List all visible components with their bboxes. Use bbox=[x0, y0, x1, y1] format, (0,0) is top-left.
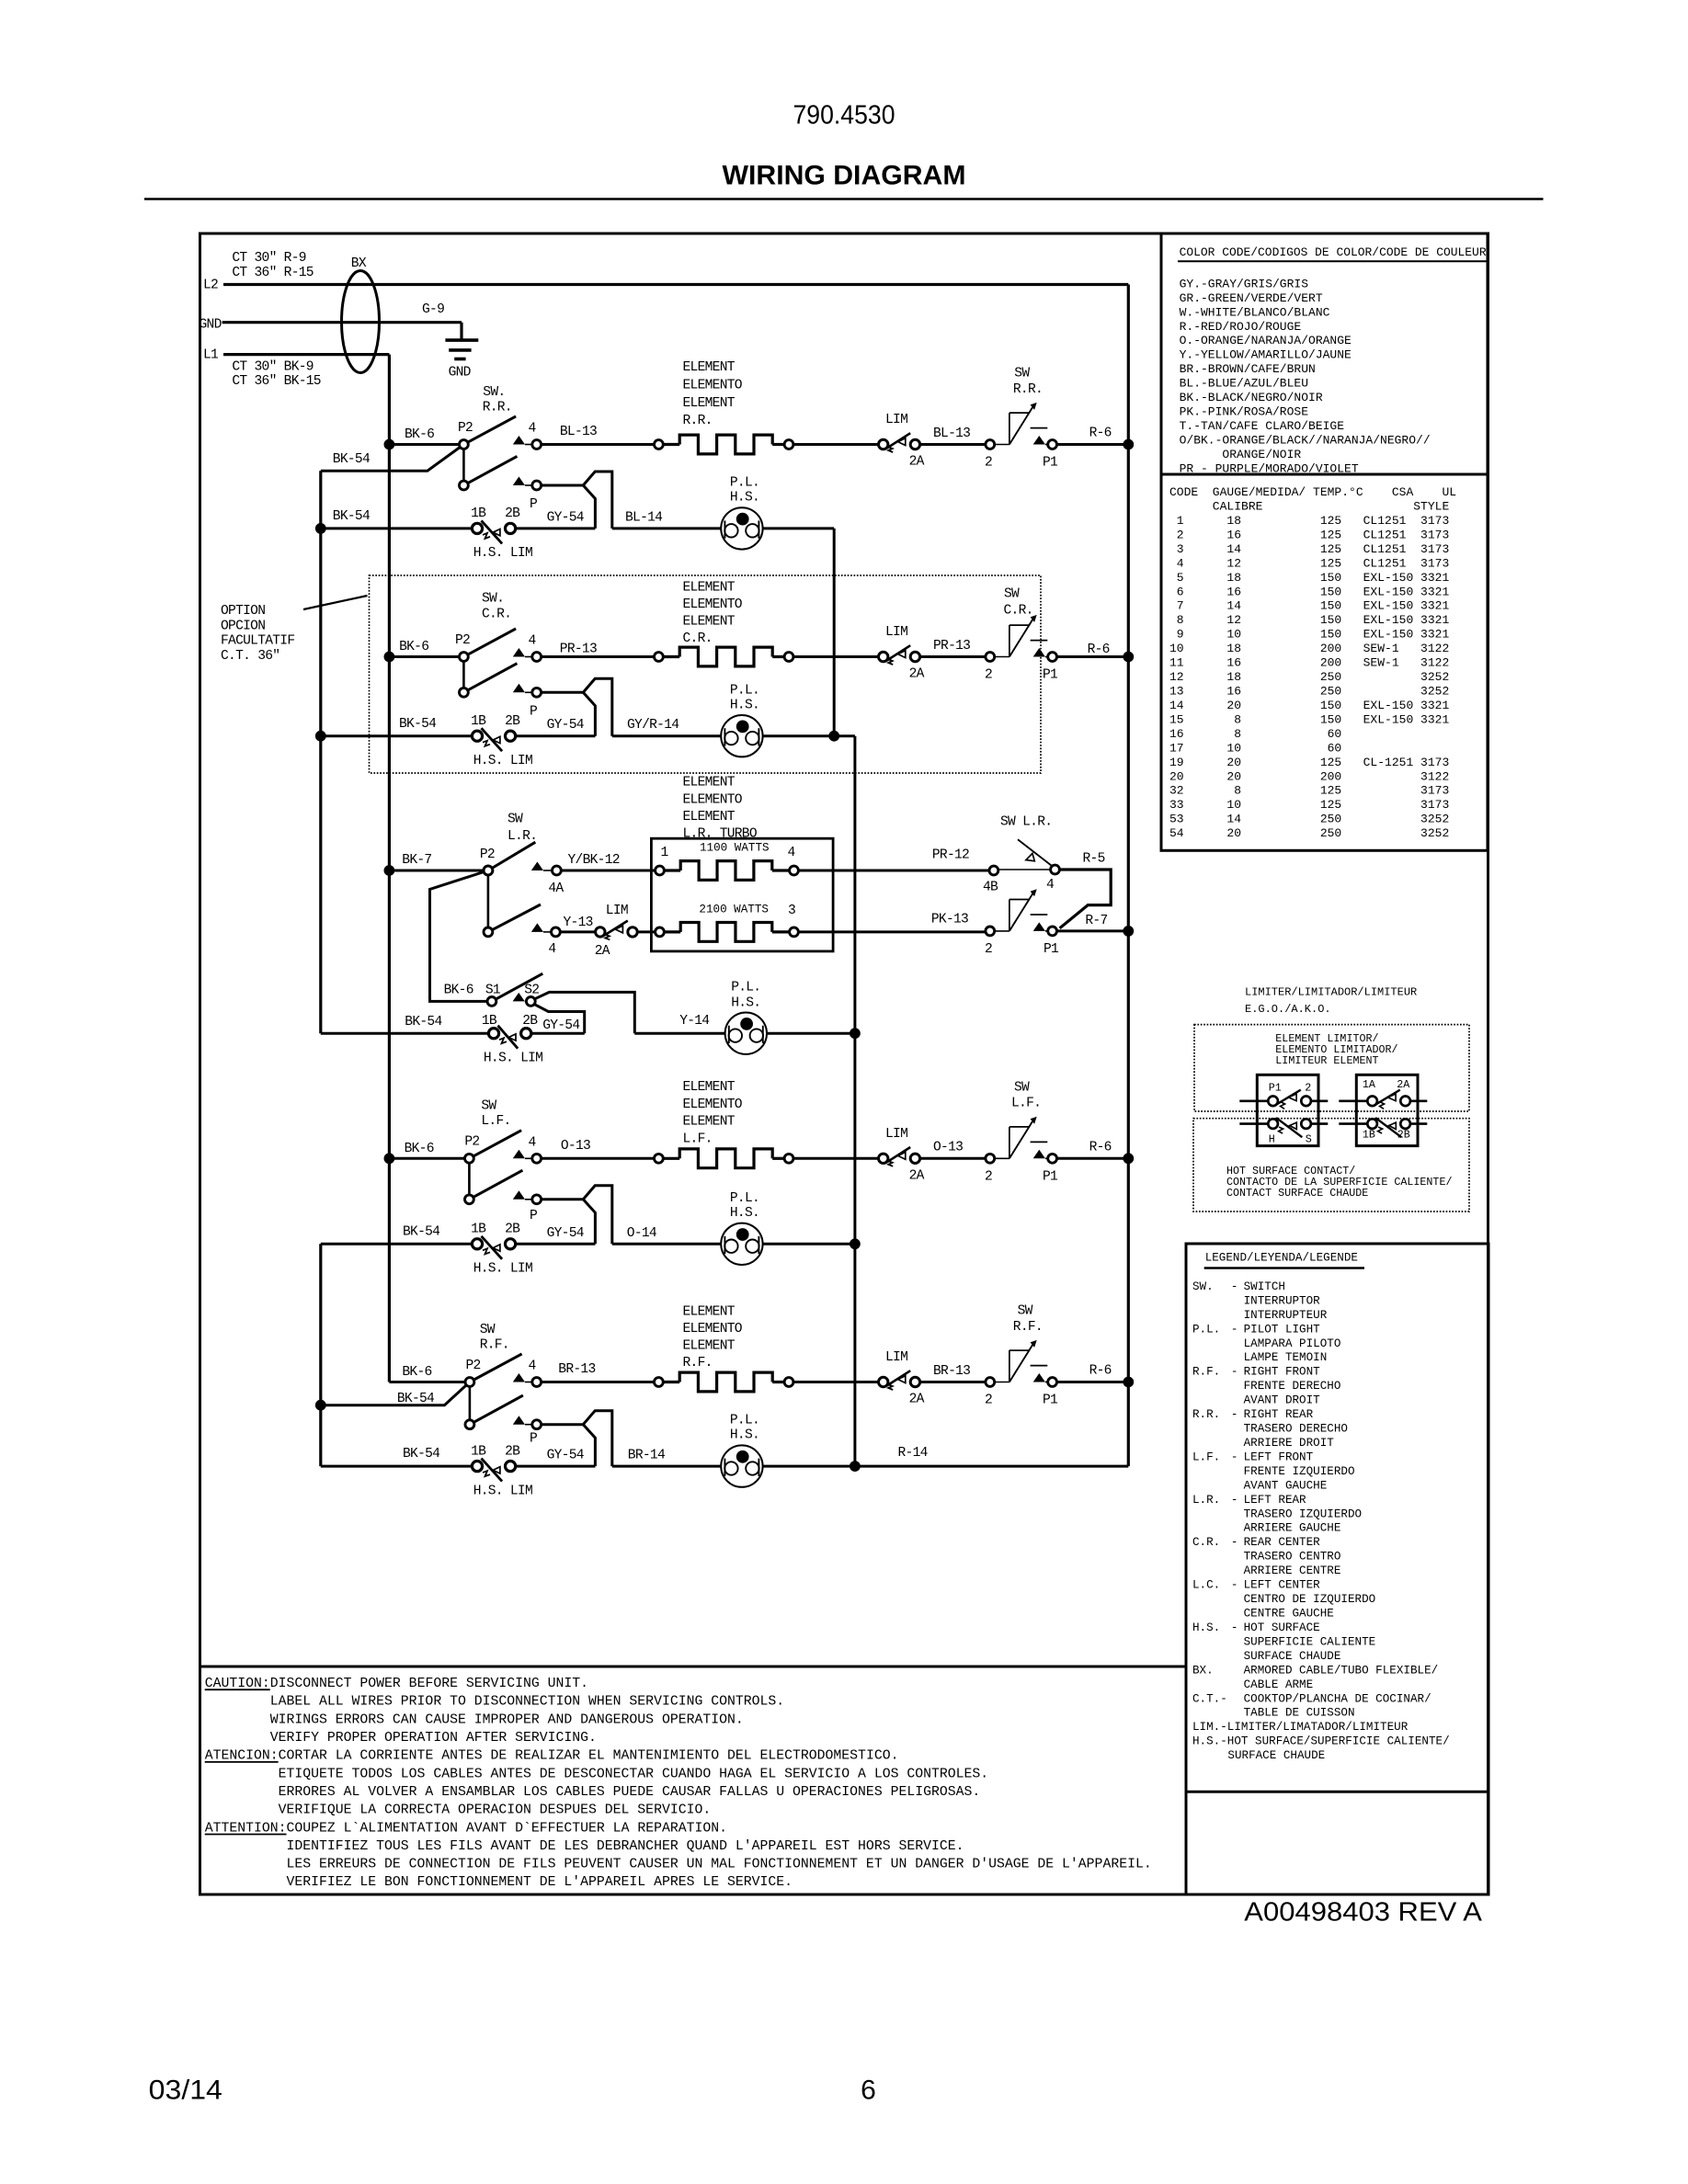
svg-text:8 12 150 EXL-: 8 12 150 EXL-150 3321 bbox=[1169, 613, 1449, 627]
svg-text:P.L.: P.L. bbox=[730, 1191, 759, 1206]
svg-text:CT 30" BK-9: CT 30" BK-9 bbox=[232, 359, 313, 374]
svg-text:CORTAR LA CORRIENTE ANTES DE R: CORTAR LA CORRIENTE ANTES DE REALIZAR EL… bbox=[279, 1749, 899, 1764]
svg-text:PR-13: PR-13 bbox=[560, 642, 597, 656]
svg-text:TRASERO IZQUIERDO: TRASERO IZQUIERDO bbox=[1244, 1507, 1362, 1520]
svg-text:INTERRUPTEUR: INTERRUPTEUR bbox=[1244, 1309, 1328, 1322]
svg-text:BX: BX bbox=[351, 256, 367, 271]
svg-text:H.S.: H.S. bbox=[1192, 1621, 1220, 1634]
svg-text:L.R. TURBO: L.R. TURBO bbox=[683, 827, 758, 842]
svg-text:11 16 200 SEW: 11 16 200 SEW-1 3122 bbox=[1169, 656, 1449, 670]
wire BK-54 (L.R.) bbox=[321, 1032, 489, 1035]
svg-text:SW.: SW. bbox=[483, 385, 505, 400]
wire BR-13 b (R.F.) bbox=[920, 1381, 986, 1383]
wire pilot out (R.R.) bbox=[763, 527, 835, 529]
legend divider bbox=[1186, 1791, 1488, 1793]
svg-text:3 14 125 CL12: 3 14 125 CL1251 3173 bbox=[1169, 542, 1449, 556]
svg-text:P2: P2 bbox=[480, 847, 495, 862]
svg-text:H.S.: H.S. bbox=[730, 698, 759, 712]
element L.F. bbox=[655, 1154, 664, 1163]
svg-text:P1: P1 bbox=[1043, 456, 1058, 471]
svg-text:4: 4 bbox=[529, 1359, 537, 1374]
svg-text:ETIQUETE TODOS LOS CABLES ANTE: ETIQUETE TODOS LOS CABLES ANTES DE DESCO… bbox=[205, 1767, 988, 1781]
svg-text:4B: 4B bbox=[983, 881, 998, 895]
terminal P (R.F.) bbox=[513, 1416, 525, 1425]
outer border box bbox=[200, 233, 1488, 1894]
svg-text:PR-12: PR-12 bbox=[932, 848, 969, 863]
switch SW L.R. relay bbox=[998, 869, 1052, 870]
pilot light P.L. H.S. (R.R.) bbox=[721, 507, 762, 549]
element R.R. bbox=[655, 440, 664, 449]
svg-text:FACULTATIF: FACULTATIF bbox=[221, 634, 294, 649]
wire BL-13 (R.R.) bbox=[542, 443, 659, 446]
svg-text:PK-13: PK-13 bbox=[931, 913, 968, 927]
svg-text:790.4530: 790.4530 bbox=[793, 100, 895, 130]
wire GY riser (R.R.) bbox=[583, 485, 595, 529]
svg-text:GY.-GRAY/GRIS/GRIS: GY.-GRAY/GRIS/GRIS bbox=[1180, 277, 1309, 290]
svg-text:ARRIERE DROIT: ARRIERE DROIT bbox=[1244, 1437, 1335, 1450]
wire element to LIM (R.F.) bbox=[793, 1381, 879, 1383]
svg-text:1B: 1B bbox=[1363, 1129, 1375, 1142]
svg-text:BR.-BROWN/CAFE/BRUN: BR.-BROWN/CAFE/BRUN bbox=[1180, 362, 1316, 376]
svg-text:R.F.: R.F. bbox=[683, 1356, 713, 1371]
pilot light P.L. H.S. (L.F.) bbox=[721, 1223, 762, 1265]
svg-text:LEFT CENTER: LEFT CENTER bbox=[1244, 1579, 1321, 1592]
svg-text:SW.: SW. bbox=[1192, 1280, 1214, 1293]
wire S2 to GY-54 (L.R.) bbox=[534, 1004, 585, 1033]
svg-text:P1: P1 bbox=[1043, 1169, 1058, 1184]
svg-text:P.L.: P.L. bbox=[730, 476, 759, 491]
svg-text:COOKTOP/PLANCHA DE COCINAR/: COOKTOP/PLANCHA DE COCINAR/ bbox=[1244, 1692, 1431, 1705]
svg-text:TABLE DE CUISSON: TABLE DE CUISSON bbox=[1244, 1707, 1355, 1720]
svg-text:L1: L1 bbox=[203, 348, 219, 363]
wire O-14 (L.F.) bbox=[612, 1243, 722, 1246]
svg-text:PILOT LIGHT: PILOT LIGHT bbox=[1244, 1323, 1321, 1336]
junction pilot bus (L.R.) bbox=[850, 1028, 861, 1039]
svg-text:-: - bbox=[1231, 1621, 1238, 1634]
svg-text:S2: S2 bbox=[524, 984, 539, 998]
color code box bbox=[1161, 233, 1488, 474]
svg-text:O/BK.-ORANGE/BLACK//NARANJA/NE: O/BK.-ORANGE/BLACK//NARANJA/NEGRO// bbox=[1180, 433, 1431, 447]
svg-text:R.R.: R.R. bbox=[483, 400, 512, 415]
bus right R vertical bbox=[1127, 285, 1130, 1467]
svg-text:2B: 2B bbox=[1397, 1129, 1410, 1142]
svg-text:R.F.: R.F. bbox=[480, 1337, 509, 1352]
wire PR-13 (C.R.) bbox=[542, 655, 659, 658]
svg-text:REAR CENTER: REAR CENTER bbox=[1244, 1536, 1321, 1549]
option dashed box C.T. 36 bbox=[370, 575, 1042, 773]
svg-text:R.-RED/ROJO/ROUGE: R.-RED/ROJO/ROUGE bbox=[1180, 320, 1302, 334]
junction R-7 L.R. bbox=[1123, 926, 1134, 937]
wire BK-54 (C.R.) bbox=[321, 734, 473, 737]
cable BX bbox=[342, 271, 380, 373]
svg-text:HOT SURFACE: HOT SURFACE bbox=[1244, 1621, 1320, 1634]
svg-text:LEFT FRONT: LEFT FRONT bbox=[1244, 1450, 1314, 1463]
svg-text:LEGEND/LEYENDA/LEGENDE: LEGEND/LEYENDA/LEGENDE bbox=[1205, 1251, 1358, 1264]
pilot light P.L. H.S. (R.F.) bbox=[721, 1445, 762, 1486]
svg-text:-: - bbox=[1231, 1280, 1238, 1293]
svg-text:SW: SW bbox=[481, 1099, 496, 1114]
wire pilot out (R.F.) bbox=[763, 1465, 855, 1468]
svg-text:BK-54: BK-54 bbox=[333, 452, 371, 467]
svg-text:BR-13: BR-13 bbox=[933, 1364, 970, 1379]
svg-text:R-5: R-5 bbox=[1083, 852, 1105, 867]
svg-text:L.R.: L.R. bbox=[1192, 1494, 1220, 1507]
svg-text:BK-6: BK-6 bbox=[405, 1142, 434, 1156]
svg-text:L.R.: L.R. bbox=[508, 829, 537, 844]
svg-text:H.S. LIM: H.S. LIM bbox=[473, 546, 532, 561]
junction BK-6 L.F. bbox=[384, 1153, 395, 1164]
switch SW R.R. pole 1 bbox=[463, 416, 516, 445]
svg-text:7 14 150 EXL-: 7 14 150 EXL-150 3321 bbox=[1169, 599, 1449, 613]
wire GY riser (L.F.) bbox=[583, 1200, 595, 1245]
H.S. limiter 1B 2B (R.R.) bbox=[472, 523, 482, 533]
svg-text:A00498403 REV A: A00498403 REV A bbox=[1244, 1897, 1482, 1927]
svg-text:-: - bbox=[1231, 1366, 1238, 1379]
svg-text:P2: P2 bbox=[455, 633, 470, 648]
wire Y-13 (L.R.) bbox=[560, 930, 595, 933]
switch SW R.F. pole 1 bbox=[470, 1354, 522, 1382]
svg-text:RIGHT FRONT: RIGHT FRONT bbox=[1244, 1366, 1321, 1379]
terminal 4 (C.R.) bbox=[513, 648, 525, 657]
svg-text:COUPEZ L`ALIMENTATION AVANT D`: COUPEZ L`ALIMENTATION AVANT D`EFFECTUER … bbox=[287, 1821, 728, 1836]
svg-text:SW L.R.: SW L.R. bbox=[1000, 814, 1052, 829]
H.S. limiter 1B 2B (C.R.) bbox=[472, 731, 482, 741]
svg-text:ELEMENT: ELEMENT bbox=[683, 810, 736, 825]
svg-text:R.R.: R.R. bbox=[683, 414, 713, 428]
svg-text:2A: 2A bbox=[909, 1393, 925, 1407]
svg-text:H.S. LIM: H.S. LIM bbox=[484, 1052, 542, 1066]
svg-text:19 20 125 CL-: 19 20 125 CL-1251 3173 bbox=[1169, 756, 1449, 769]
svg-text:BK-6: BK-6 bbox=[399, 640, 428, 654]
svg-text:ERRORES AL VOLVER A ENSAMBLAR: ERRORES AL VOLVER A ENSAMBLAR LOS CABLES… bbox=[205, 1785, 981, 1800]
svg-text:33 10 125: 33 10 125 3173 bbox=[1169, 798, 1449, 812]
H.S. limiter 1B 2B (L.F.) bbox=[472, 1239, 482, 1249]
svg-text:-: - bbox=[1231, 1450, 1238, 1463]
svg-text:CABLE ARME: CABLE ARME bbox=[1244, 1678, 1314, 1691]
svg-text:H.S. LIM: H.S. LIM bbox=[473, 1484, 532, 1498]
svg-text:3: 3 bbox=[788, 904, 795, 918]
terminal 2 (R.F.) bbox=[986, 1378, 995, 1387]
svg-text:LAMPE TEMOIN: LAMPE TEMOIN bbox=[1244, 1351, 1328, 1364]
switch SW L.R. pole 1 bbox=[488, 842, 535, 870]
bus L1 vertical bbox=[388, 355, 391, 1382]
svg-text:32 8 125: 32 8 125 3173 bbox=[1169, 784, 1449, 798]
svg-text:CODE GAUGE/MEDIDA/ TEMP.°C: CODE GAUGE/MEDIDA/ TEMP.°C CSA UL bbox=[1169, 485, 1456, 499]
svg-text:1B: 1B bbox=[482, 1014, 497, 1029]
svg-text:P2: P2 bbox=[464, 1135, 479, 1150]
svg-text:W.-WHITE/BLANCO/BLANC: W.-WHITE/BLANCO/BLANC bbox=[1180, 305, 1330, 319]
svg-text:R.F.: R.F. bbox=[1013, 1320, 1043, 1335]
terminal P1 (L.R.) bbox=[1033, 922, 1045, 931]
svg-text:ELEMENTO: ELEMENTO bbox=[683, 1322, 743, 1337]
wire pilot out (L.F.) bbox=[763, 1243, 855, 1246]
svg-text:CT 36" BK-15: CT 36" BK-15 bbox=[232, 374, 320, 389]
svg-text:Y/BK-12: Y/BK-12 bbox=[568, 853, 620, 868]
svg-text:LIMITEUR ELEMENT: LIMITEUR ELEMENT bbox=[1275, 1054, 1378, 1067]
svg-text:CALIBRE ST: CALIBRE STYLE bbox=[1169, 500, 1449, 514]
leader line option bbox=[303, 596, 368, 609]
svg-text:BL.-BLUE/AZUL/BLEU: BL.-BLUE/AZUL/BLEU bbox=[1180, 377, 1308, 391]
wire BK-6 (R.F.) bbox=[389, 1381, 470, 1383]
hot surface contact dotted box bbox=[1193, 1119, 1469, 1211]
svg-text:ELEMENT: ELEMENT bbox=[683, 1080, 736, 1095]
svg-text:T.-TAN/CAFE CLARO/BEIGE: T.-TAN/CAFE CLARO/BEIGE bbox=[1180, 419, 1345, 433]
junction BK-7 L.R. bbox=[384, 865, 395, 876]
svg-text:WIRING DIAGRAM: WIRING DIAGRAM bbox=[723, 160, 966, 190]
wire BL-14 (R.R.) bbox=[612, 527, 722, 529]
svg-text:2100 WATTS: 2100 WATTS bbox=[699, 904, 769, 916]
svg-text:O-13: O-13 bbox=[561, 1139, 590, 1154]
svg-text:GY/R-14: GY/R-14 bbox=[627, 718, 679, 733]
terminal 2 (L.F.) bbox=[986, 1154, 995, 1163]
svg-text:P.L.: P.L. bbox=[731, 980, 760, 995]
thermostat SW (L.R.) bbox=[995, 930, 1009, 932]
wire element to LIM (C.R.) bbox=[793, 655, 879, 658]
wire Y/BK-12 (L.R.) bbox=[561, 870, 655, 872]
svg-text:H.S.: H.S. bbox=[730, 1206, 759, 1221]
svg-text:12 18 250: 12 18 250 3252 bbox=[1169, 670, 1449, 684]
wire L2 bbox=[223, 283, 1128, 286]
wire L1 bbox=[223, 353, 389, 356]
svg-text:LIM: LIM bbox=[885, 413, 907, 427]
svg-text:4: 4 bbox=[529, 1135, 537, 1150]
caution divider line bbox=[200, 1666, 1187, 1668]
svg-text:INTERRUPTOR: INTERRUPTOR bbox=[1244, 1294, 1321, 1307]
svg-text:L.C.: L.C. bbox=[1192, 1579, 1220, 1592]
svg-text:GND: GND bbox=[200, 318, 222, 333]
svg-text:2: 2 bbox=[1305, 1081, 1311, 1094]
element L.R. winding 2100 WATTS bbox=[656, 927, 665, 937]
bus BK-54 lower segment bbox=[319, 1244, 322, 1466]
terminal P1 (R.F.) bbox=[1033, 1373, 1045, 1382]
svg-text:BK-54: BK-54 bbox=[403, 1447, 440, 1462]
switch SW L.F. pole 2 bbox=[468, 1163, 471, 1195]
bus H.S. pilot vertical lower bbox=[853, 736, 856, 1466]
bus H.S. pilot jog bbox=[834, 734, 855, 737]
svg-text:SW: SW bbox=[480, 1323, 496, 1337]
svg-text:ARMORED CABLE/TUBO FLEXIBLE/: ARMORED CABLE/TUBO FLEXIBLE/ bbox=[1244, 1664, 1439, 1677]
svg-text:GY-54: GY-54 bbox=[542, 1018, 580, 1033]
switch SW C.R. pole 1 bbox=[463, 629, 516, 657]
svg-text:CT 30" R-9: CT 30" R-9 bbox=[232, 251, 305, 266]
svg-text:-: - bbox=[1231, 1408, 1238, 1421]
svg-text:LES ERREURS DE CONNECTION DE F: LES ERREURS DE CONNECTION DE FILS PEUVEN… bbox=[205, 1858, 1152, 1872]
svg-text:54 20 250: 54 20 250 3252 bbox=[1169, 826, 1449, 840]
svg-text:H: H bbox=[1269, 1132, 1275, 1145]
svg-text:1 18 125 CL12: 1 18 125 CL1251 3173 bbox=[1169, 514, 1449, 528]
wire PK-13 (L.R.) bbox=[798, 930, 986, 933]
element L.R. TURBO box bbox=[651, 838, 833, 951]
wire BK-54 (R.R.) bbox=[321, 527, 473, 529]
junction BK-6 C.R. bbox=[384, 652, 395, 663]
limiter LIM (L.R.) bbox=[596, 927, 605, 937]
wire P to risers (C.R.) bbox=[542, 678, 612, 735]
svg-text:ELEMENT: ELEMENT bbox=[683, 1305, 736, 1320]
ground symbol GND bbox=[445, 338, 478, 342]
svg-text:R-7: R-7 bbox=[1085, 914, 1107, 928]
svg-text:L2: L2 bbox=[203, 279, 218, 293]
svg-text:CONTACT SURFACE CHAUDE: CONTACT SURFACE CHAUDE bbox=[1226, 1187, 1368, 1200]
svg-text:BR-14: BR-14 bbox=[628, 1449, 666, 1463]
svg-text:ARRIERE GAUCHE: ARRIERE GAUCHE bbox=[1244, 1522, 1341, 1535]
limiter LIM (R.R.) bbox=[879, 439, 888, 449]
wire R-6 (C.R.) bbox=[1057, 655, 1129, 658]
svg-text:SURFACE CHAUDE: SURFACE CHAUDE bbox=[1244, 1650, 1341, 1663]
svg-text:P1: P1 bbox=[1043, 668, 1058, 683]
svg-text:14 20 150 EXL: 14 20 150 EXL-150 3321 bbox=[1169, 699, 1449, 712]
wire BK-6 (R.R.) bbox=[389, 443, 463, 446]
gauge table box bbox=[1161, 474, 1488, 850]
svg-text:20 20 200: 20 20 200 3122 bbox=[1169, 769, 1449, 783]
wire R-14 (R.F.) bbox=[855, 1465, 1128, 1468]
svg-text:2A: 2A bbox=[595, 944, 610, 959]
svg-text:LEFT REAR: LEFT REAR bbox=[1244, 1494, 1306, 1507]
wire BK-54 feed (R.R.) bbox=[321, 445, 464, 472]
wire R-5 jog (L.R.) bbox=[1059, 870, 1111, 928]
terminal 2 (C.R.) bbox=[986, 653, 995, 662]
svg-text:WIRINGS ERRORS CAN CAUSE IMPRO: WIRINGS ERRORS CAN CAUSE IMPROPER AND DA… bbox=[205, 1712, 744, 1727]
wire LIM to winding2 (L.R.) bbox=[637, 930, 655, 933]
terminal 2 (R.R.) bbox=[986, 440, 995, 449]
terminal 4 (R.F.) bbox=[513, 1373, 525, 1382]
junction R-6 R.R. bbox=[1123, 439, 1134, 450]
svg-text:-: - bbox=[1231, 1536, 1238, 1549]
element R.F. bbox=[655, 1378, 664, 1387]
junction pilot bus (C.R.) bbox=[828, 731, 839, 742]
svg-text:4: 4 bbox=[529, 634, 537, 649]
svg-text:13 16 250: 13 16 250 3252 bbox=[1169, 685, 1449, 699]
svg-text:TRASERO DERECHO: TRASERO DERECHO bbox=[1244, 1423, 1348, 1436]
svg-text:AVANT GAUCHE: AVANT GAUCHE bbox=[1244, 1479, 1328, 1492]
svg-text:1B: 1B bbox=[471, 506, 486, 521]
thermostat SW R.R. bbox=[995, 444, 1009, 446]
svg-text:BK-6: BK-6 bbox=[444, 984, 473, 998]
svg-text:1B: 1B bbox=[471, 1444, 486, 1459]
svg-text:4: 4 bbox=[529, 422, 537, 437]
thermostat SW L.F. bbox=[995, 1157, 1009, 1159]
svg-text:GR.-GREEN/VERDE/VERT: GR.-GREEN/VERDE/VERT bbox=[1180, 291, 1323, 305]
bus BK-54 upper segment bbox=[319, 471, 322, 1033]
svg-text:-: - bbox=[1231, 1579, 1238, 1592]
svg-text:SW: SW bbox=[1018, 1304, 1033, 1319]
svg-text:BL-14: BL-14 bbox=[625, 510, 663, 525]
svg-text:S1: S1 bbox=[485, 984, 501, 998]
svg-text:2: 2 bbox=[985, 942, 992, 957]
svg-text:1A: 1A bbox=[1363, 1078, 1376, 1091]
junction BK-54 R.R. bbox=[315, 523, 326, 534]
svg-text:C.R.: C.R. bbox=[683, 631, 713, 646]
limiter LIM (L.F.) bbox=[879, 1154, 888, 1163]
wire GY riser (R.F.) bbox=[583, 1425, 595, 1466]
svg-text:FRENTE DERECHO: FRENTE DERECHO bbox=[1244, 1380, 1341, 1393]
svg-text:L.F.: L.F. bbox=[1192, 1450, 1220, 1463]
svg-text:ELEMENT: ELEMENT bbox=[683, 581, 736, 596]
element L.R. winding 1100 WATTS bbox=[656, 866, 665, 875]
wire BK-6 to S1 (L.R.) bbox=[430, 870, 488, 1001]
svg-text:G-9: G-9 bbox=[422, 302, 444, 317]
terminal P1 (L.F.) bbox=[1033, 1150, 1045, 1159]
wire BK-7 (L.R.) bbox=[389, 870, 488, 872]
terminal P (C.R.) bbox=[513, 684, 525, 693]
wire GY-54 (R.F.) bbox=[516, 1465, 596, 1468]
wire BK-54 feed (R.F.) bbox=[321, 1382, 470, 1405]
svg-text:R-6: R-6 bbox=[1089, 427, 1112, 441]
svg-text:4: 4 bbox=[788, 846, 796, 860]
svg-text:OPTION: OPTION bbox=[221, 604, 265, 619]
svg-text:COLOR CODE/CODIGOS DE COLOR/CO: COLOR CODE/CODIGOS DE COLOR/CODE DE COUL… bbox=[1180, 245, 1487, 259]
wire Y-14 (L.R.) bbox=[634, 1032, 724, 1035]
svg-text:BK-54: BK-54 bbox=[405, 1015, 442, 1029]
switch S1 S2 (L.R.) bbox=[492, 973, 542, 1001]
svg-text:1100 WATTS: 1100 WATTS bbox=[700, 842, 770, 855]
svg-text:H.S.: H.S. bbox=[730, 491, 759, 506]
wire GY-54 (L.F.) bbox=[516, 1243, 596, 1246]
switch SW C.R. pole 2 bbox=[462, 661, 465, 688]
svg-text:6: 6 bbox=[861, 2076, 876, 2106]
wire O-13 (L.F.) bbox=[542, 1157, 659, 1160]
svg-text:Y-13: Y-13 bbox=[564, 916, 593, 930]
svg-text:ELEMENT: ELEMENT bbox=[683, 1115, 736, 1130]
svg-text:03/14: 03/14 bbox=[149, 2076, 222, 2106]
svg-text:PR-13: PR-13 bbox=[933, 639, 970, 654]
terminal P (R.R.) bbox=[513, 477, 525, 486]
svg-text:-: - bbox=[1231, 1494, 1238, 1507]
svg-text:16 8 60: 16 8 60 bbox=[1169, 727, 1420, 741]
junction BK-54 C.R. bbox=[315, 731, 326, 742]
switch SW L.R. pole 2 bbox=[487, 875, 490, 927]
svg-text:ELEMENT: ELEMENT bbox=[683, 360, 736, 375]
svg-text:SW: SW bbox=[1014, 367, 1030, 381]
svg-text:CT 36" R-15: CT 36" R-15 bbox=[232, 266, 313, 280]
title rule bbox=[144, 198, 1544, 200]
svg-text:R-6: R-6 bbox=[1089, 1364, 1112, 1379]
terminal 4 (R.R.) bbox=[513, 436, 525, 445]
wire BR-13 (R.F.) bbox=[542, 1381, 659, 1383]
wire GND G-9 bbox=[222, 321, 462, 324]
svg-text:BX.: BX. bbox=[1192, 1664, 1214, 1677]
svg-text:2A: 2A bbox=[909, 667, 925, 682]
svg-text:C.R.: C.R. bbox=[1004, 604, 1033, 619]
svg-text:C.T.-: C.T.- bbox=[1192, 1692, 1227, 1705]
svg-text:ELEMENTO: ELEMENTO bbox=[683, 378, 743, 392]
svg-text:2B: 2B bbox=[505, 1223, 520, 1237]
wire GY-54 (C.R.) bbox=[516, 734, 596, 737]
svg-text:L.F.: L.F. bbox=[683, 1132, 713, 1146]
svg-text:ELEMENT: ELEMENT bbox=[683, 614, 736, 629]
junction R-6 R.F. bbox=[1123, 1377, 1134, 1388]
svg-text:FRENTE IZQUIERDO: FRENTE IZQUIERDO bbox=[1244, 1465, 1355, 1478]
wire GY-54 (R.R.) bbox=[516, 527, 596, 529]
junction BK-54 feed R.F. bbox=[315, 1400, 326, 1411]
svg-text:S: S bbox=[1306, 1132, 1312, 1145]
svg-text:O.-ORANGE/NARANJA/ORANGE: O.-ORANGE/NARANJA/ORANGE bbox=[1180, 334, 1352, 347]
svg-text:C.T. 36": C.T. 36" bbox=[221, 649, 279, 664]
svg-text:5 18 150 EXL-: 5 18 150 EXL-150 3321 bbox=[1169, 571, 1449, 585]
wire P to risers (R.R.) bbox=[542, 472, 612, 529]
svg-text:TRASERO CENTRO: TRASERO CENTRO bbox=[1244, 1551, 1341, 1564]
svg-text:BK-54: BK-54 bbox=[399, 717, 437, 732]
svg-text:2B: 2B bbox=[505, 714, 520, 729]
junction pilot bus (R.F.) bbox=[850, 1461, 861, 1472]
svg-text:R.F.: R.F. bbox=[1192, 1366, 1220, 1379]
svg-text:H.S.: H.S. bbox=[731, 995, 760, 1010]
limiter switch box P1-2 / H-S bbox=[1257, 1075, 1318, 1145]
svg-text:P: P bbox=[530, 1209, 537, 1223]
svg-text:ELEMENTO: ELEMENTO bbox=[683, 792, 743, 807]
svg-text:SURFACE CHAUDE: SURFACE CHAUDE bbox=[1227, 1749, 1325, 1762]
svg-text:ELEMENT: ELEMENT bbox=[683, 776, 736, 791]
thermostat SW C.R. bbox=[995, 656, 1009, 658]
